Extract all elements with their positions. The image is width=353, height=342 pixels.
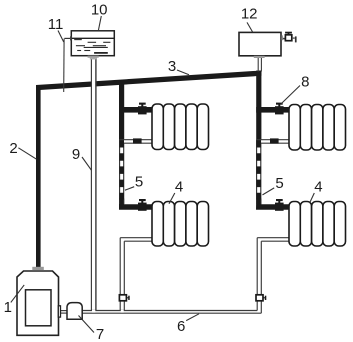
right riser lower solid corner bbox=[256, 199, 290, 210]
heater unit 12 bbox=[239, 32, 281, 55]
expansion pipe 9 (tank down-pipe) bbox=[92, 79, 95, 88]
right top radiator feed pipe bbox=[256, 107, 290, 113]
return line 6 (thin horizontal pipe) bbox=[82, 311, 261, 314]
radiator valve top right (valve 8) bbox=[275, 103, 284, 115]
radiator 4 (bottom right) bbox=[289, 202, 346, 247]
left bottom radiator drop pipe (thin) bbox=[120, 238, 153, 311]
boiler 1 bbox=[17, 271, 59, 335]
boiler door bbox=[26, 290, 52, 326]
svg-text:1: 1 bbox=[4, 299, 12, 316]
left top radiator feed pipe bbox=[119, 107, 153, 113]
pipe from unit 12 to riser bbox=[258, 58, 261, 72]
label 12 bbox=[241, 5, 258, 32]
right riser upper solid segment bbox=[256, 71, 261, 140]
svg-text:9: 9 bbox=[72, 146, 80, 163]
left riser upper solid segment bbox=[119, 81, 124, 140]
radiator valve bottom left bbox=[138, 199, 147, 211]
overflow pipe 11 (vertical line) bbox=[63, 39, 65, 92]
label 8 bbox=[281, 73, 309, 103]
right bottom radiator drop pipe (thin) bbox=[257, 238, 290, 314]
label 10 bbox=[91, 1, 108, 31]
label 9 bbox=[72, 146, 92, 170]
label 4 right bbox=[310, 179, 323, 203]
svg-text:5: 5 bbox=[275, 175, 283, 192]
left top radiator return stub (thin pipe) bbox=[120, 140, 153, 144]
right top radiator return stub (thin pipe) bbox=[257, 140, 290, 144]
supply pipe 2 (thick vertical to boiler) bbox=[36, 86, 41, 268]
boiler top collar bbox=[32, 267, 44, 271]
svg-text:12: 12 bbox=[241, 5, 258, 22]
fitting on right return stub bbox=[270, 138, 279, 143]
pump 7 bbox=[67, 303, 82, 320]
svg-text:8: 8 bbox=[301, 73, 309, 90]
junction white merge left drop bbox=[121, 310, 124, 313]
balancing valve on left drop pipe bbox=[119, 295, 129, 301]
label 7 bbox=[79, 316, 105, 342]
expansion tank 10 bbox=[71, 31, 114, 56]
tank outlet collar bbox=[88, 56, 99, 58]
radiator 4 (top left) bbox=[152, 104, 209, 150]
label 2 bbox=[9, 140, 36, 159]
fitting on left return stub bbox=[133, 138, 142, 143]
left riser dashed section (pipe 5) bbox=[120, 140, 124, 205]
label 11 bbox=[48, 16, 64, 42]
svg-text:3: 3 bbox=[168, 58, 176, 75]
label 3 bbox=[168, 58, 189, 75]
svg-text:5: 5 bbox=[135, 174, 143, 191]
unit 12 outlet collar bbox=[254, 56, 265, 58]
svg-text:4: 4 bbox=[314, 179, 322, 196]
right riser dashed section (pipe 5) bbox=[257, 140, 261, 205]
svg-text:7: 7 bbox=[96, 326, 104, 342]
label 6 bbox=[177, 314, 199, 335]
svg-text:2: 2 bbox=[9, 140, 17, 157]
balancing valve on right drop pipe bbox=[256, 295, 266, 301]
junction white merge pipe9/return bbox=[92, 310, 95, 313]
label 5 right bbox=[263, 175, 284, 195]
svg-text:4: 4 bbox=[175, 179, 183, 196]
label 1 bbox=[4, 285, 25, 316]
overflow nozzle 11 bbox=[64, 36, 71, 40]
radiator valve top left bbox=[138, 103, 147, 115]
boiler-to-pump flange bbox=[58, 306, 67, 317]
main supply line 3 (sloped thick pipe) bbox=[36, 71, 262, 91]
label 5 left bbox=[125, 174, 143, 191]
left riser lower solid corner bbox=[119, 199, 153, 210]
label 4 left bbox=[169, 179, 183, 204]
svg-text:10: 10 bbox=[91, 1, 108, 18]
radiator 4 (bottom left) bbox=[152, 202, 209, 247]
svg-text:11: 11 bbox=[48, 16, 64, 33]
radiator valve bottom right bbox=[275, 199, 284, 211]
air vent valve on unit 12 bbox=[281, 32, 297, 43]
svg-text:6: 6 bbox=[177, 318, 185, 335]
radiator 4 (top right) bbox=[289, 105, 346, 151]
